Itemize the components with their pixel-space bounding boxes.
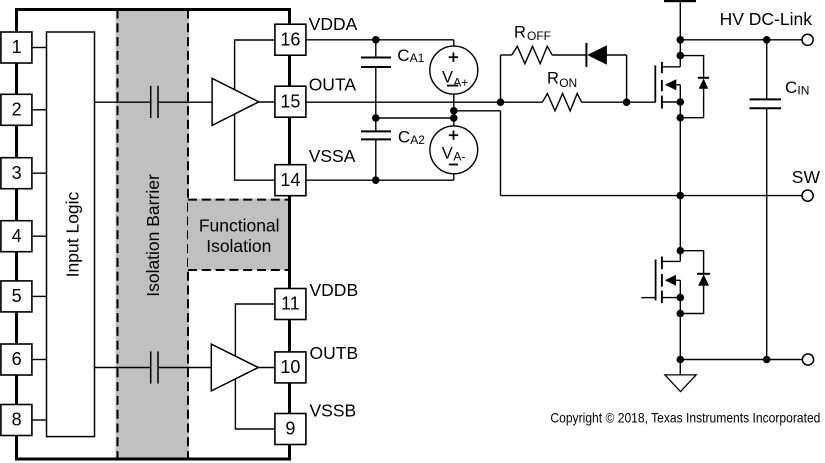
node Q2 source lead xyxy=(677,294,685,302)
functional isolation region xyxy=(188,199,290,270)
node VA mid lower xyxy=(450,114,458,122)
input logic box xyxy=(47,32,95,437)
transistor Q2 low-side xyxy=(641,257,680,304)
wire Q2 source to ground rail xyxy=(679,298,681,360)
pin 2 xyxy=(1,94,32,125)
wire pin3 stub xyxy=(32,172,46,174)
wire ROFF branch up xyxy=(500,55,502,102)
node Q1 diode bottom xyxy=(677,114,685,122)
source VA+ xyxy=(430,40,478,111)
svg-text:6: 6 xyxy=(12,349,22,369)
svg-text:9: 9 xyxy=(285,419,295,439)
svg-text:Functional: Functional xyxy=(199,216,280,236)
source VA- xyxy=(430,118,478,180)
svg-text:14: 14 xyxy=(280,170,300,190)
pin 15 xyxy=(275,86,306,117)
svg-text:8: 8 xyxy=(12,410,22,430)
node Q2 diode bottom xyxy=(677,310,685,318)
svg-text:V: V xyxy=(442,69,453,87)
capacitor CIN xyxy=(750,40,782,360)
svg-text:2: 2 xyxy=(12,100,22,120)
node Q1 diode top xyxy=(677,52,685,60)
svg-text:C: C xyxy=(785,78,797,97)
wire pin6 stub xyxy=(32,359,46,361)
node VA mid upper xyxy=(450,107,458,115)
pin 8 xyxy=(1,405,32,436)
node OUTA/ROFF junction xyxy=(497,98,505,106)
wire CA mid link xyxy=(376,117,454,119)
svg-text:A-: A- xyxy=(453,149,465,163)
pin 1 xyxy=(1,32,32,63)
svg-text:A1: A1 xyxy=(410,51,425,65)
svg-text:V: V xyxy=(442,144,453,162)
svg-text:Isolation Barrier: Isolation Barrier xyxy=(143,174,163,297)
svg-text:VDDB: VDDB xyxy=(310,280,359,300)
wire pin2 stub xyxy=(32,109,46,111)
wire pin1 stub xyxy=(32,47,46,49)
wire channel B signal xyxy=(95,367,212,369)
svg-text:VDDA: VDDA xyxy=(309,14,358,34)
diode Q1 body xyxy=(680,56,709,118)
label RON xyxy=(547,70,577,90)
node SW junction xyxy=(677,192,685,200)
svg-text:IN: IN xyxy=(797,83,809,97)
svg-text:Copyright © 2018, Texas Instru: Copyright © 2018, Texas Instruments Inco… xyxy=(550,411,820,426)
capacitor isolation cap B xyxy=(151,351,158,383)
pin 10 xyxy=(275,352,306,383)
wire SW net xyxy=(501,195,803,197)
wire SW drop vertical xyxy=(500,111,502,196)
wire buffer B VDD branch xyxy=(235,304,274,356)
wire VSSA net xyxy=(307,179,454,181)
svg-text:VSSB: VSSB xyxy=(310,400,357,420)
wire OUTA net xyxy=(307,101,656,103)
pin 16 xyxy=(275,24,306,55)
svg-text:5: 5 xyxy=(12,286,22,306)
wire channel A signal xyxy=(95,101,213,103)
buffer A xyxy=(212,78,259,125)
diode D1 xyxy=(586,43,626,102)
buffer B xyxy=(211,344,258,391)
node RON/diode junction xyxy=(623,98,631,106)
svg-text:1: 1 xyxy=(12,37,22,57)
resistor ROFF xyxy=(501,46,587,63)
label CA1 xyxy=(397,46,424,65)
svg-text:Isolation: Isolation xyxy=(206,236,271,256)
label ROFF xyxy=(514,23,551,43)
svg-text:16: 16 xyxy=(280,29,300,49)
wire pin4 stub xyxy=(32,235,46,237)
node Q2 drain xyxy=(677,247,685,255)
svg-text:OFF: OFF xyxy=(527,29,551,43)
ground xyxy=(665,360,696,392)
isolation barrier gray band xyxy=(116,10,189,459)
IC outline xyxy=(17,10,290,460)
svg-text:A2: A2 xyxy=(410,133,425,147)
wire Q2 drain drop xyxy=(679,196,681,262)
svg-text:C: C xyxy=(398,128,410,147)
svg-text:11: 11 xyxy=(281,294,300,314)
wire HV DC-Link net xyxy=(680,39,802,41)
pin 9 xyxy=(275,414,306,445)
svg-text:VSSA: VSSA xyxy=(309,146,356,166)
terminal SW xyxy=(802,190,813,201)
node HV line junction xyxy=(677,36,685,44)
label CA2 xyxy=(398,128,425,147)
transistor Q1 high-side xyxy=(655,62,680,109)
capacitor CA1 xyxy=(361,40,391,118)
svg-text:OUTB: OUTB xyxy=(310,343,359,363)
pin 11 xyxy=(275,289,306,320)
resistor RON xyxy=(542,94,581,111)
capacitor CA2 xyxy=(361,118,391,180)
wire buffer B VSS branch xyxy=(235,380,274,430)
wire HV vertical drop xyxy=(679,2,681,67)
svg-text:C: C xyxy=(397,46,409,65)
node Q1 source xyxy=(677,98,685,106)
pin 5 xyxy=(1,281,32,312)
pin 3 xyxy=(1,158,32,189)
label CIN xyxy=(785,78,809,97)
wire VDDA net xyxy=(307,39,454,41)
terminal bottom right xyxy=(802,354,813,365)
svg-text:R: R xyxy=(547,70,559,88)
node VSSA/CA2 junction xyxy=(372,176,380,184)
wire Q1 source to SW xyxy=(679,102,681,196)
node VDDA/CA1 junction xyxy=(372,36,380,44)
terminal HV DC-Link xyxy=(802,34,813,45)
diode Q2 body xyxy=(680,251,710,314)
node ground rail CIN xyxy=(763,356,771,364)
node CA mid xyxy=(372,114,380,122)
svg-text:15: 15 xyxy=(280,91,300,111)
wire buffer B output xyxy=(258,367,275,369)
svg-text:HV DC-Link: HV DC-Link xyxy=(720,9,813,29)
wire pin8 stub xyxy=(32,419,46,421)
svg-text:4: 4 xyxy=(12,226,22,246)
wire buffer A output xyxy=(259,101,275,103)
node ground rail left xyxy=(677,356,685,364)
svg-text:ON: ON xyxy=(559,76,577,90)
svg-text:R: R xyxy=(514,23,526,41)
svg-text:A+: A+ xyxy=(453,75,468,89)
wire mid node to SW drop xyxy=(454,110,501,112)
pin 4 xyxy=(1,221,32,252)
pin 6 xyxy=(1,344,32,375)
pin 14 xyxy=(275,165,306,196)
wire ground rail xyxy=(680,359,802,361)
top rail stub bar xyxy=(664,0,696,2)
capacitor isolation cap A xyxy=(151,86,158,118)
svg-text:3: 3 xyxy=(12,163,22,183)
svg-text:Input Logic: Input Logic xyxy=(62,191,82,277)
svg-text:OUTA: OUTA xyxy=(309,75,357,95)
svg-text:SW: SW xyxy=(792,167,821,187)
wire pin5 stub xyxy=(32,295,46,297)
wire buffer A VSS branch xyxy=(235,114,275,180)
node HV/CIN junction xyxy=(763,36,771,44)
svg-text:10: 10 xyxy=(280,357,300,377)
wire buffer A VDD branch xyxy=(235,40,275,90)
